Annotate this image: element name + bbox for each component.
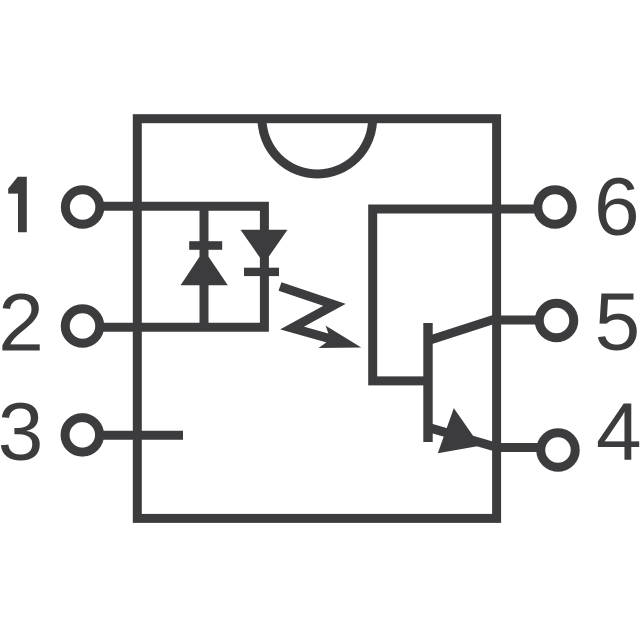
wire diode D1 branch bbox=[200, 206, 209, 327]
pin 5 terminal bbox=[539, 303, 574, 338]
svg-text:3: 3 bbox=[0, 387, 43, 478]
package outline U1 bbox=[137, 119, 496, 519]
wire emitter of Q1 bbox=[429, 428, 497, 448]
diode D1 cathode bar bbox=[189, 241, 222, 250]
wire pin3 stub bbox=[83, 431, 183, 440]
pin-1 index notch bbox=[262, 119, 373, 174]
light emission zigzag arrow bbox=[280, 287, 340, 342]
svg-text:6: 6 bbox=[594, 161, 640, 252]
emitter arrowhead bbox=[438, 408, 480, 453]
pin 6 terminal bbox=[538, 190, 573, 225]
LED D2 triangle bbox=[241, 230, 288, 264]
wire pin1 to anode junction, LED D2 branch, wire pin2 bbox=[83, 206, 264, 327]
light arrow head bbox=[319, 326, 362, 348]
wire collector of Q1 bbox=[429, 319, 497, 341]
svg-text:2: 2 bbox=[0, 278, 44, 369]
wire pin6 to base loop bbox=[373, 209, 555, 381]
LED D2 cathode bar bbox=[244, 268, 279, 276]
transistor Q1 base bar bbox=[423, 323, 432, 442]
diode D1 triangle bbox=[181, 250, 228, 285]
svg-text:5: 5 bbox=[595, 277, 640, 368]
pin 4 terminal bbox=[541, 433, 576, 468]
svg-text:4: 4 bbox=[596, 386, 640, 477]
pin 2 terminal bbox=[65, 309, 100, 344]
pin label 1 bbox=[8, 177, 27, 232]
pin 1 terminal bbox=[65, 190, 100, 225]
pin 3 terminal bbox=[65, 418, 100, 453]
wire pin5 bbox=[497, 316, 557, 325]
wire pin4 bbox=[497, 443, 558, 452]
